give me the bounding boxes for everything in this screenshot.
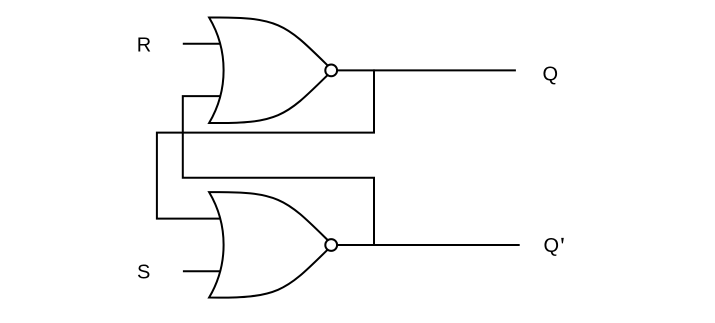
svg-text:Q: Q <box>543 63 559 85</box>
svg-text:Q: Q <box>544 235 560 257</box>
wire feedback Q to U2 input <box>157 69 374 218</box>
inversion bubble U1 <box>325 65 337 77</box>
svg-text:R: R <box>137 35 151 57</box>
wire feedback Q' to U1 input <box>183 96 374 246</box>
svg-text:S: S <box>137 261 150 283</box>
NOR gate U1 (top) <box>209 17 337 123</box>
NOR gate U2 (bottom) <box>209 192 337 298</box>
wire S input stub <box>183 270 221 272</box>
wire R input stub <box>183 43 221 45</box>
wire Q output <box>337 69 516 71</box>
wire Q' output <box>337 244 519 246</box>
inversion bubble U2 <box>325 239 337 251</box>
